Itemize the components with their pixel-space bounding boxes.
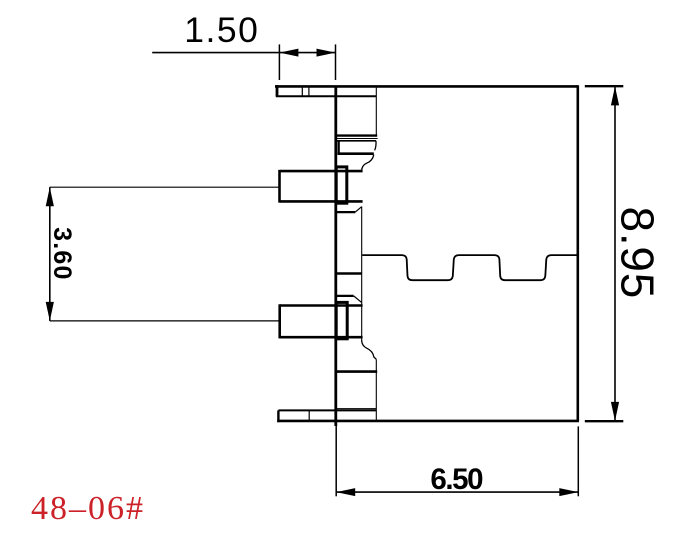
dimension 1.50 witness line left (278, 44, 280, 80)
dimension 1.50 witness line right (335, 44, 337, 80)
dimension 6.50 witness line right (577, 426, 579, 496)
dimension 1.50 arrow left (279, 49, 298, 57)
inner vertical line C (bottom) (375, 359, 377, 420)
inner vertical line A (top) (375, 86, 377, 136)
dimension 6.50 dim line (336, 491, 578, 493)
dimension 3.60 extension line top (50, 186, 280, 188)
pin 2 collar (336, 302, 347, 338)
svg-text:48–06#: 48–06# (31, 490, 145, 527)
svg-text:3.60: 3.60 (48, 227, 76, 280)
dimension 1.50 arrow right (317, 49, 336, 57)
dimension 3.60 dim line (49, 187, 51, 321)
part top edge (275, 85, 578, 88)
dimension 8.95 dim line (614, 86, 616, 421)
dimension 8.95 arrow up (611, 86, 619, 105)
dimension 3.60 arrow down (46, 302, 54, 321)
svg-text:1.50: 1.50 (184, 10, 259, 50)
dimension 3.60 arrow up (46, 187, 54, 206)
dimension 8.95 extension line bottom (585, 420, 624, 422)
svg-text:6.50: 6.50 (430, 463, 483, 496)
mating face castellation (zigzag) (362, 255, 578, 280)
dimension 8.95 arrow down (611, 402, 619, 421)
ogee curve upper (362, 155, 374, 172)
dimension 6.50 arrow left (336, 488, 355, 496)
part left edge (334, 86, 337, 426)
pin 1 (280, 170, 363, 203)
dimension 8.95 extension line top (585, 85, 624, 87)
dimension 3.60 extension line bottom (50, 320, 280, 322)
thin line above bottom flange (336, 408, 377, 410)
step line mid (336, 272, 362, 274)
pin 2 (280, 304, 363, 338)
step line lower (336, 370, 377, 373)
dimension 6.50 arrow right (559, 488, 578, 496)
dimension 1.50 leader line (152, 52, 279, 54)
ogee curve lower (362, 340, 377, 359)
part bottom edge (277, 420, 579, 423)
step box (upper) (337, 141, 377, 154)
part right edge (576, 85, 579, 421)
chamfer above pin 2 (336, 295, 354, 297)
pin 1 collar (336, 167, 347, 203)
step double line (upper) (336, 134, 377, 136)
dimension 6.50 witness line left (335, 424, 337, 496)
bottom mounting flange (278, 410, 376, 422)
top mounting flange (276, 85, 377, 96)
chamfer below pin 1 (336, 211, 356, 213)
dimension 1.50 dim line (279, 52, 335, 54)
inner vertical line B (middle) (361, 207, 363, 341)
svg-text:8.95: 8.95 (611, 206, 663, 299)
